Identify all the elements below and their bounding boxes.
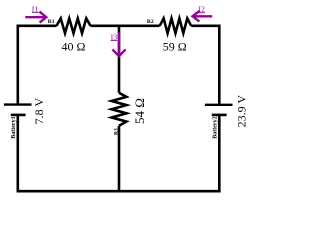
wire right vertical lower (218, 115, 221, 193)
wire bottom (17, 190, 221, 193)
resistor R3 (112, 93, 127, 126)
wire right vertical upper (218, 25, 221, 105)
battery B2 long plate (205, 104, 233, 106)
current arrow I3 (112, 32, 125, 56)
wire top-middle segment (91, 24, 160, 27)
svg-text:40 Ω: 40 Ω (62, 39, 86, 53)
wire middle vertical upper (118, 26, 121, 93)
resistor R1 (57, 18, 91, 33)
battery B1 long plate (4, 103, 32, 105)
battery B1 short plate (11, 114, 26, 117)
svg-text:Battery2: Battery2 (213, 116, 219, 138)
wire middle vertical lower (118, 126, 121, 192)
wire left vertical upper (16, 25, 19, 105)
svg-text:Battery1: Battery1 (11, 116, 17, 138)
svg-text:54 Ω: 54 Ω (132, 98, 147, 124)
wire top-left segment (18, 24, 57, 27)
resistor R2 (160, 18, 192, 33)
svg-text:R1: R1 (48, 19, 55, 25)
wire left vertical lower (16, 115, 19, 193)
wire top-right segment (191, 24, 219, 27)
svg-text:23.9 V: 23.9 V (234, 95, 248, 128)
current arrow I1 (25, 12, 46, 23)
battery B2 short plate (212, 114, 227, 117)
svg-text:7.8 V: 7.8 V (32, 98, 46, 125)
svg-text:59 Ω: 59 Ω (163, 39, 187, 53)
svg-text:R2: R2 (147, 19, 154, 25)
svg-text:R3: R3 (113, 128, 119, 135)
current arrow I2 (193, 11, 213, 22)
